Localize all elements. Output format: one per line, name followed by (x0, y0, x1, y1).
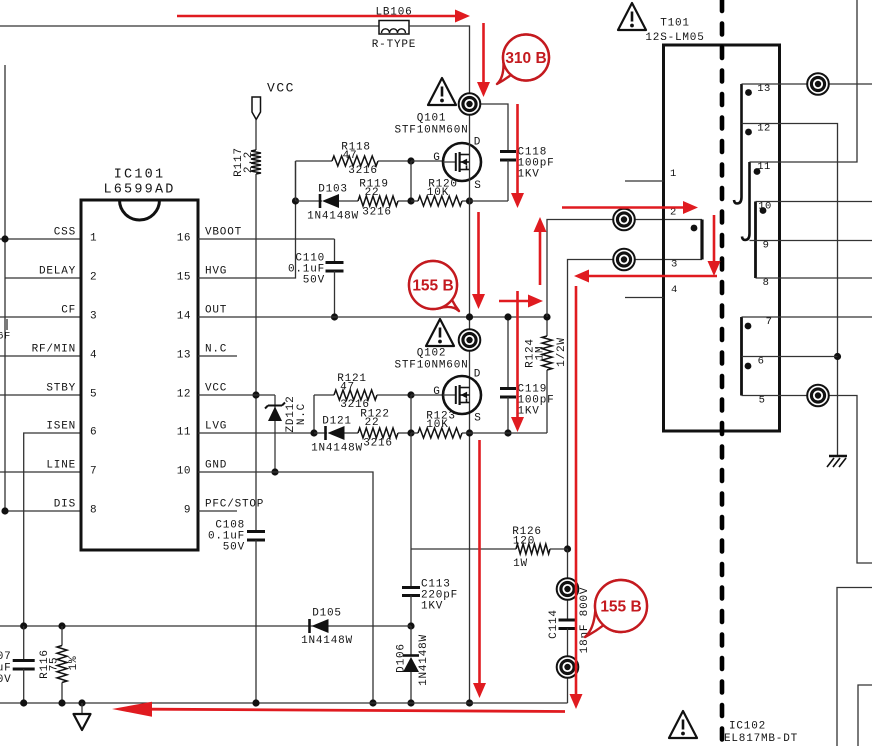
IC101 left pin names (32, 227, 76, 511)
component box bottom right outer (837, 588, 872, 746)
dashed isolation line (720, 0, 725, 746)
node R116 bottom (58, 699, 65, 706)
wire pin8 to right edge (756, 277, 872, 279)
svg-text:2.2: 2.2 (243, 151, 255, 173)
svg-text:50V: 50V (223, 542, 245, 554)
resistor R121 47 3216 (314, 394, 334, 396)
svg-text:HVG: HVG (205, 266, 227, 278)
svg-text:15: 15 (177, 272, 191, 284)
T101 primary pin numbers (670, 168, 678, 296)
node C107 bottom (20, 699, 27, 706)
node C119 top at OUT (504, 313, 511, 320)
wire source row to R124 bottom (470, 432, 548, 434)
diode D121 1N4148W (314, 432, 327, 434)
red bubble 155 V at OUT (409, 261, 459, 311)
svg-text:STF10NM60N: STF10NM60N (394, 125, 468, 137)
warning triangle Q101 (428, 78, 456, 105)
wire HVG pin15 with corner up to gate network (198, 161, 296, 278)
T101 secondary winding bar 11-9 with curl (742, 162, 750, 240)
svg-text:VCC: VCC (267, 80, 295, 95)
capacitor C119 100pF 1KV with leads (507, 317, 509, 389)
svg-text:12: 12 (177, 389, 191, 401)
wire C108 to bottom rail (255, 540, 257, 703)
node R122 R123 junction (407, 429, 414, 436)
svg-text:18nF 800V: 18nF 800V (579, 587, 591, 654)
node C110 at OUT wire (331, 313, 338, 320)
svg-text:OUT: OUT (205, 305, 227, 317)
svg-text:155 В: 155 В (412, 278, 453, 295)
wire C113 to D105 rail (410, 596, 412, 627)
wire main half-bridge bus vertical (469, 104, 471, 703)
svg-text:2: 2 (90, 272, 97, 284)
svg-text:1KV: 1KV (421, 601, 443, 613)
svg-text:Q102: Q102 (417, 348, 447, 360)
svg-text:1M: 1M (535, 346, 547, 361)
node Q101 source (466, 197, 473, 204)
svg-text:10K: 10K (426, 419, 448, 431)
wire pin12 to ground column (742, 124, 838, 457)
svg-text:155 В: 155 В (600, 599, 641, 616)
svg-text:G: G (433, 152, 440, 164)
svg-text:C114: C114 (548, 609, 560, 639)
capacitor C107 with leads (23, 626, 25, 661)
svg-text:10K: 10K (427, 187, 449, 199)
wire OUT branch up to T101 pin 2 (547, 220, 702, 318)
T101 polarity dots secondary (745, 89, 767, 369)
svg-text:75: 75 (49, 657, 61, 672)
wire LINE pin7 (0, 471, 81, 473)
svg-text:11: 11 (757, 161, 771, 173)
node C107 ISEN at D105 rail (20, 622, 27, 629)
resistor R118 47 3216 (296, 160, 333, 162)
wire top bus LB106 to corner and down to Q101 drain (409, 26, 470, 104)
node ZD112 anode at GND wire (271, 468, 278, 475)
IC101 left pin numbers 1-8 (90, 233, 97, 517)
diode D105 1N4148W (310, 619, 329, 633)
wire gate divider vertical Q102 (410, 395, 412, 433)
wire VCC pin to R117 (255, 120, 257, 151)
wire T101 pin 4 stub (625, 297, 664, 299)
capacitor C114 18nF 800V with test points (567, 549, 569, 620)
svg-text:1N4148W: 1N4148W (301, 635, 353, 647)
svg-text:1W: 1W (513, 558, 528, 570)
svg-text:47: 47 (340, 382, 355, 394)
node bus at bottom rail (466, 699, 473, 706)
svg-text:D: D (474, 137, 481, 149)
red arrow down right of primary (708, 215, 721, 276)
svg-text:4: 4 (671, 284, 678, 296)
wire gate branch R118 left (295, 161, 297, 201)
capacitor C113 220pF 1KV (402, 588, 420, 596)
red arrow up to pin2 wire (534, 217, 547, 285)
svg-text:R-TYPE: R-TYPE (372, 39, 416, 51)
svg-text:16: 16 (177, 233, 191, 245)
node C119 bottom at source wire (504, 429, 511, 436)
wire CF pin3 (0, 316, 81, 318)
wire PFC/STOP pin9 stub (198, 510, 237, 512)
wire DELAY pin2 (5, 277, 81, 279)
wire pin10 to right edge (756, 201, 872, 203)
svg-text:DIS: DIS (54, 499, 76, 511)
wire gate resistor divider vertical (410, 161, 412, 201)
red arrow left under pin 3 (574, 270, 717, 283)
svg-text:LINE: LINE (46, 460, 76, 472)
svg-text:22: 22 (365, 187, 380, 199)
svg-text:0V: 0V (0, 674, 12, 686)
svg-text:9: 9 (184, 505, 191, 517)
svg-text:6F: 6F (0, 331, 11, 343)
wire bottom ground rail (0, 702, 568, 704)
svg-text:VCC: VCC (205, 383, 227, 395)
svg-text:1KV: 1KV (518, 169, 540, 181)
node Q101 gate (407, 157, 414, 164)
svg-text:RF/MIN: RF/MIN (32, 344, 76, 356)
red arrow long down to bottom rail (570, 286, 583, 709)
red arrow down to OUT node (472, 212, 485, 309)
node DIS junction (1, 507, 8, 514)
svg-text:6: 6 (758, 356, 765, 368)
resistor R120 10K (411, 200, 418, 202)
resistor R123 10K (411, 432, 418, 434)
wire CSS pin1 (0, 238, 81, 240)
wire RF/MIN pin4 (0, 355, 81, 357)
svg-text:S: S (474, 413, 481, 425)
IC101 right pin numbers 16-9 (177, 233, 191, 517)
node pin6 at ground column (834, 353, 841, 360)
svg-text:6: 6 (90, 427, 97, 439)
svg-text:10: 10 (177, 466, 191, 478)
T101 secondary winding bar 13-10 with curl (734, 84, 742, 204)
wire DIS pin8 (5, 510, 81, 512)
node R124 pin2-branch at OUT (543, 313, 550, 320)
svg-text:3216: 3216 (362, 207, 392, 219)
component fragment at left edge near CF (6, 319, 8, 330)
svg-text:9: 9 (763, 240, 770, 252)
transformer T101 12S-LM05 body (664, 45, 780, 431)
svg-text:3216: 3216 (363, 438, 393, 450)
svg-text:5: 5 (759, 395, 766, 407)
svg-text:10: 10 (758, 201, 772, 213)
svg-text:1: 1 (90, 233, 97, 245)
wire LVG node down C113 column (410, 433, 412, 549)
resistor R117 2.2 (251, 150, 261, 174)
svg-text:T101: T101 (660, 18, 690, 30)
wire T101 pin 3 branch down to R126 node (568, 260, 703, 550)
svg-text:1KV: 1KV (518, 406, 540, 418)
test point C114 bottom (557, 656, 579, 678)
VCC supply pin symbol (252, 97, 261, 120)
red arrow down along C119 (511, 291, 524, 432)
svg-text:CF: CF (61, 305, 76, 317)
warning triangle IC102 (669, 711, 697, 738)
svg-text:EL817MB-DT: EL817MB-DT (724, 733, 798, 745)
svg-text:07: 07 (0, 651, 12, 663)
wire pin9 to right edge (750, 240, 872, 242)
red arrow down to Q101 drain test point (477, 23, 490, 97)
zener ZD112 N.C (265, 395, 285, 472)
test point on pin2 wire (613, 209, 635, 231)
test point C114 top (557, 578, 579, 600)
op-amp IC101 L6599AD body (81, 200, 198, 550)
node LVG D121 junction (310, 429, 317, 436)
wire D105 rail (0, 625, 411, 627)
resistor R116 75 1% (61, 626, 63, 646)
transistor Q102 STF10NM60N (443, 376, 481, 414)
red arrow along top bus (177, 10, 470, 23)
svg-text:7: 7 (766, 316, 773, 328)
node Q102 gate (407, 391, 414, 398)
svg-text:1N4148W: 1N4148W (418, 634, 430, 686)
svg-text:STBY: STBY (46, 383, 76, 395)
red arrow long left along bottom rail (112, 702, 565, 717)
test point pin13 (807, 73, 829, 95)
svg-text:CSS: CSS (54, 227, 76, 239)
test point Q101 drain (459, 93, 481, 115)
svg-text:PFC/STOP: PFC/STOP (205, 499, 264, 511)
svg-text:1: 1 (670, 168, 677, 180)
ground symbol bottom left (74, 703, 91, 730)
svg-text:D121: D121 (322, 416, 352, 428)
wire VBOOT pin16 to C110 (198, 238, 335, 240)
red arrow down Q102 source to bottom rail (473, 440, 486, 698)
svg-text:LVG: LVG (205, 421, 227, 433)
wire N.C pin13 stub (198, 355, 237, 357)
wire LVG pin11 (198, 432, 314, 434)
svg-text:N.C: N.C (296, 403, 308, 425)
red arrow down along C118 (511, 104, 524, 208)
capacitor C108 0.1uF 50V (247, 532, 265, 541)
wire OUT pin14 (198, 316, 547, 318)
capacitor C118 100pF 1KV with leads (470, 104, 509, 152)
inductor LB106 R-TYPE (379, 21, 409, 35)
svg-text:22: 22 (365, 417, 380, 429)
svg-text:G: G (433, 386, 440, 398)
warning triangle Q102 (426, 319, 454, 346)
svg-text:1N4148W: 1N4148W (311, 443, 363, 455)
svg-text:IC101: IC101 (114, 168, 166, 183)
svg-text:L6599AD: L6599AD (103, 183, 175, 198)
svg-text:D106: D106 (396, 643, 408, 673)
wire R126 row from C113 column (411, 548, 516, 550)
svg-text:14: 14 (177, 311, 191, 323)
diode D103 1N4148W (296, 200, 323, 202)
transistor Q101 STF10NM60N (443, 143, 481, 181)
svg-text:4: 4 (90, 350, 97, 362)
svg-text:12S-LM05: 12S-LM05 (645, 32, 704, 44)
red bubble 155 V at C114 (585, 580, 647, 637)
T101 secondary pin numbers (757, 83, 772, 407)
svg-text:310 В: 310 В (505, 50, 546, 67)
svg-text:D105: D105 (312, 608, 342, 620)
svg-text:S: S (474, 180, 481, 192)
svg-text:7: 7 (90, 466, 97, 478)
svg-text:3216: 3216 (348, 165, 378, 177)
wire pin11 up to top edge (750, 0, 858, 162)
wire pin7 to right edge (742, 316, 872, 318)
wire VCC pin12 (198, 394, 275, 396)
node GND rail at bottom (369, 699, 376, 706)
T101 secondary winding bar 10-8 (754, 202, 757, 279)
svg-text:IC102: IC102 (729, 721, 766, 733)
ground symbol right side (827, 456, 847, 467)
svg-text:3: 3 (90, 311, 97, 323)
svg-text:D: D (474, 369, 481, 381)
test point Q102 drain (459, 329, 481, 351)
node CSS junction (1, 235, 8, 242)
svg-text:120: 120 (513, 536, 535, 548)
node C113 D106 D105 junction (407, 622, 414, 629)
svg-text:1/2W: 1/2W (556, 337, 568, 367)
wire left vertical rail CSS-DIS (4, 65, 6, 511)
node Q102 source at bus (466, 429, 473, 436)
resistor R126 120 1W (516, 544, 550, 554)
wire gate to MOSFET Q101 (411, 160, 444, 162)
svg-text:1%: 1% (68, 656, 80, 671)
wire gate branch R121 left (313, 395, 315, 433)
wire pin13 to right edge (742, 83, 872, 85)
wire top bus from left edge to LB106 (0, 25, 379, 27)
node OUT at bus (466, 313, 473, 320)
wire STBY pin5 (0, 394, 81, 396)
svg-text:13: 13 (177, 350, 191, 362)
svg-text:1N4148W: 1N4148W (307, 211, 359, 223)
svg-text:11: 11 (177, 427, 191, 439)
svg-text:VBOOT: VBOOT (205, 227, 242, 239)
IC101 right pin names (205, 227, 264, 511)
svg-text:D103: D103 (318, 184, 348, 196)
T101 primary winding bar (700, 220, 703, 260)
svg-text:8: 8 (90, 505, 97, 517)
node D106 at bottom rail (407, 699, 414, 706)
node pin3 branch at R126 (564, 545, 571, 552)
node R116 at D105 rail (58, 622, 65, 629)
warning triangle T101 (618, 3, 646, 30)
svg-text:5: 5 (90, 389, 97, 401)
node VCC rail at pin12 wire (252, 391, 259, 398)
resistor R119 22 3216 (339, 200, 358, 202)
wire R117 down to C108 (255, 174, 257, 532)
node R119 R120 junction (407, 197, 414, 204)
svg-text:DELAY: DELAY (39, 266, 76, 278)
svg-text:ISEN: ISEN (46, 421, 76, 433)
svg-text:uF: uF (0, 663, 12, 675)
svg-text:12: 12 (757, 123, 771, 135)
svg-text:3: 3 (671, 259, 678, 271)
diode D106 1N4148W vertical (410, 626, 412, 656)
wire gate to MOSFET Q102 (411, 394, 444, 396)
T101 secondary winding bar 7-5 (740, 317, 743, 396)
test point pin5 (807, 385, 829, 407)
node HVG branch at D103 wire (292, 197, 299, 204)
svg-text:50V: 50V (303, 275, 325, 287)
wire pin5 to corner and right edge (742, 396, 872, 564)
svg-text:8: 8 (763, 277, 770, 289)
svg-text:Q101: Q101 (417, 113, 447, 125)
resistor R124 1M 1/2W with leads (546, 317, 548, 336)
svg-text:STF10NM60N: STF10NM60N (394, 360, 468, 372)
T101 primary polarity dot (691, 225, 698, 232)
test point on pin3 wire (613, 249, 635, 271)
component box bottom right inner (858, 685, 872, 746)
red arrow right at OUT (499, 295, 543, 308)
red bubble 310 V (497, 34, 549, 84)
node ground stub (78, 699, 85, 706)
svg-text:47: 47 (343, 150, 358, 162)
capacitor C110 0.1uF 50V with leads (334, 239, 336, 263)
svg-text:N.C: N.C (205, 344, 227, 356)
wire T101 pin 1 stub (625, 180, 664, 182)
svg-text:13: 13 (757, 83, 771, 95)
wire pin6 to ground column (742, 356, 838, 358)
resistor R122 22 3216 (345, 432, 359, 434)
wire ISEN pin6 with corner down (24, 433, 81, 626)
red arrow right to T101 pin 2 (562, 201, 698, 214)
node C108 bottom (252, 699, 259, 706)
svg-text:GND: GND (205, 460, 227, 472)
wire GND pin10 with corner down to bottom rail (198, 472, 373, 703)
